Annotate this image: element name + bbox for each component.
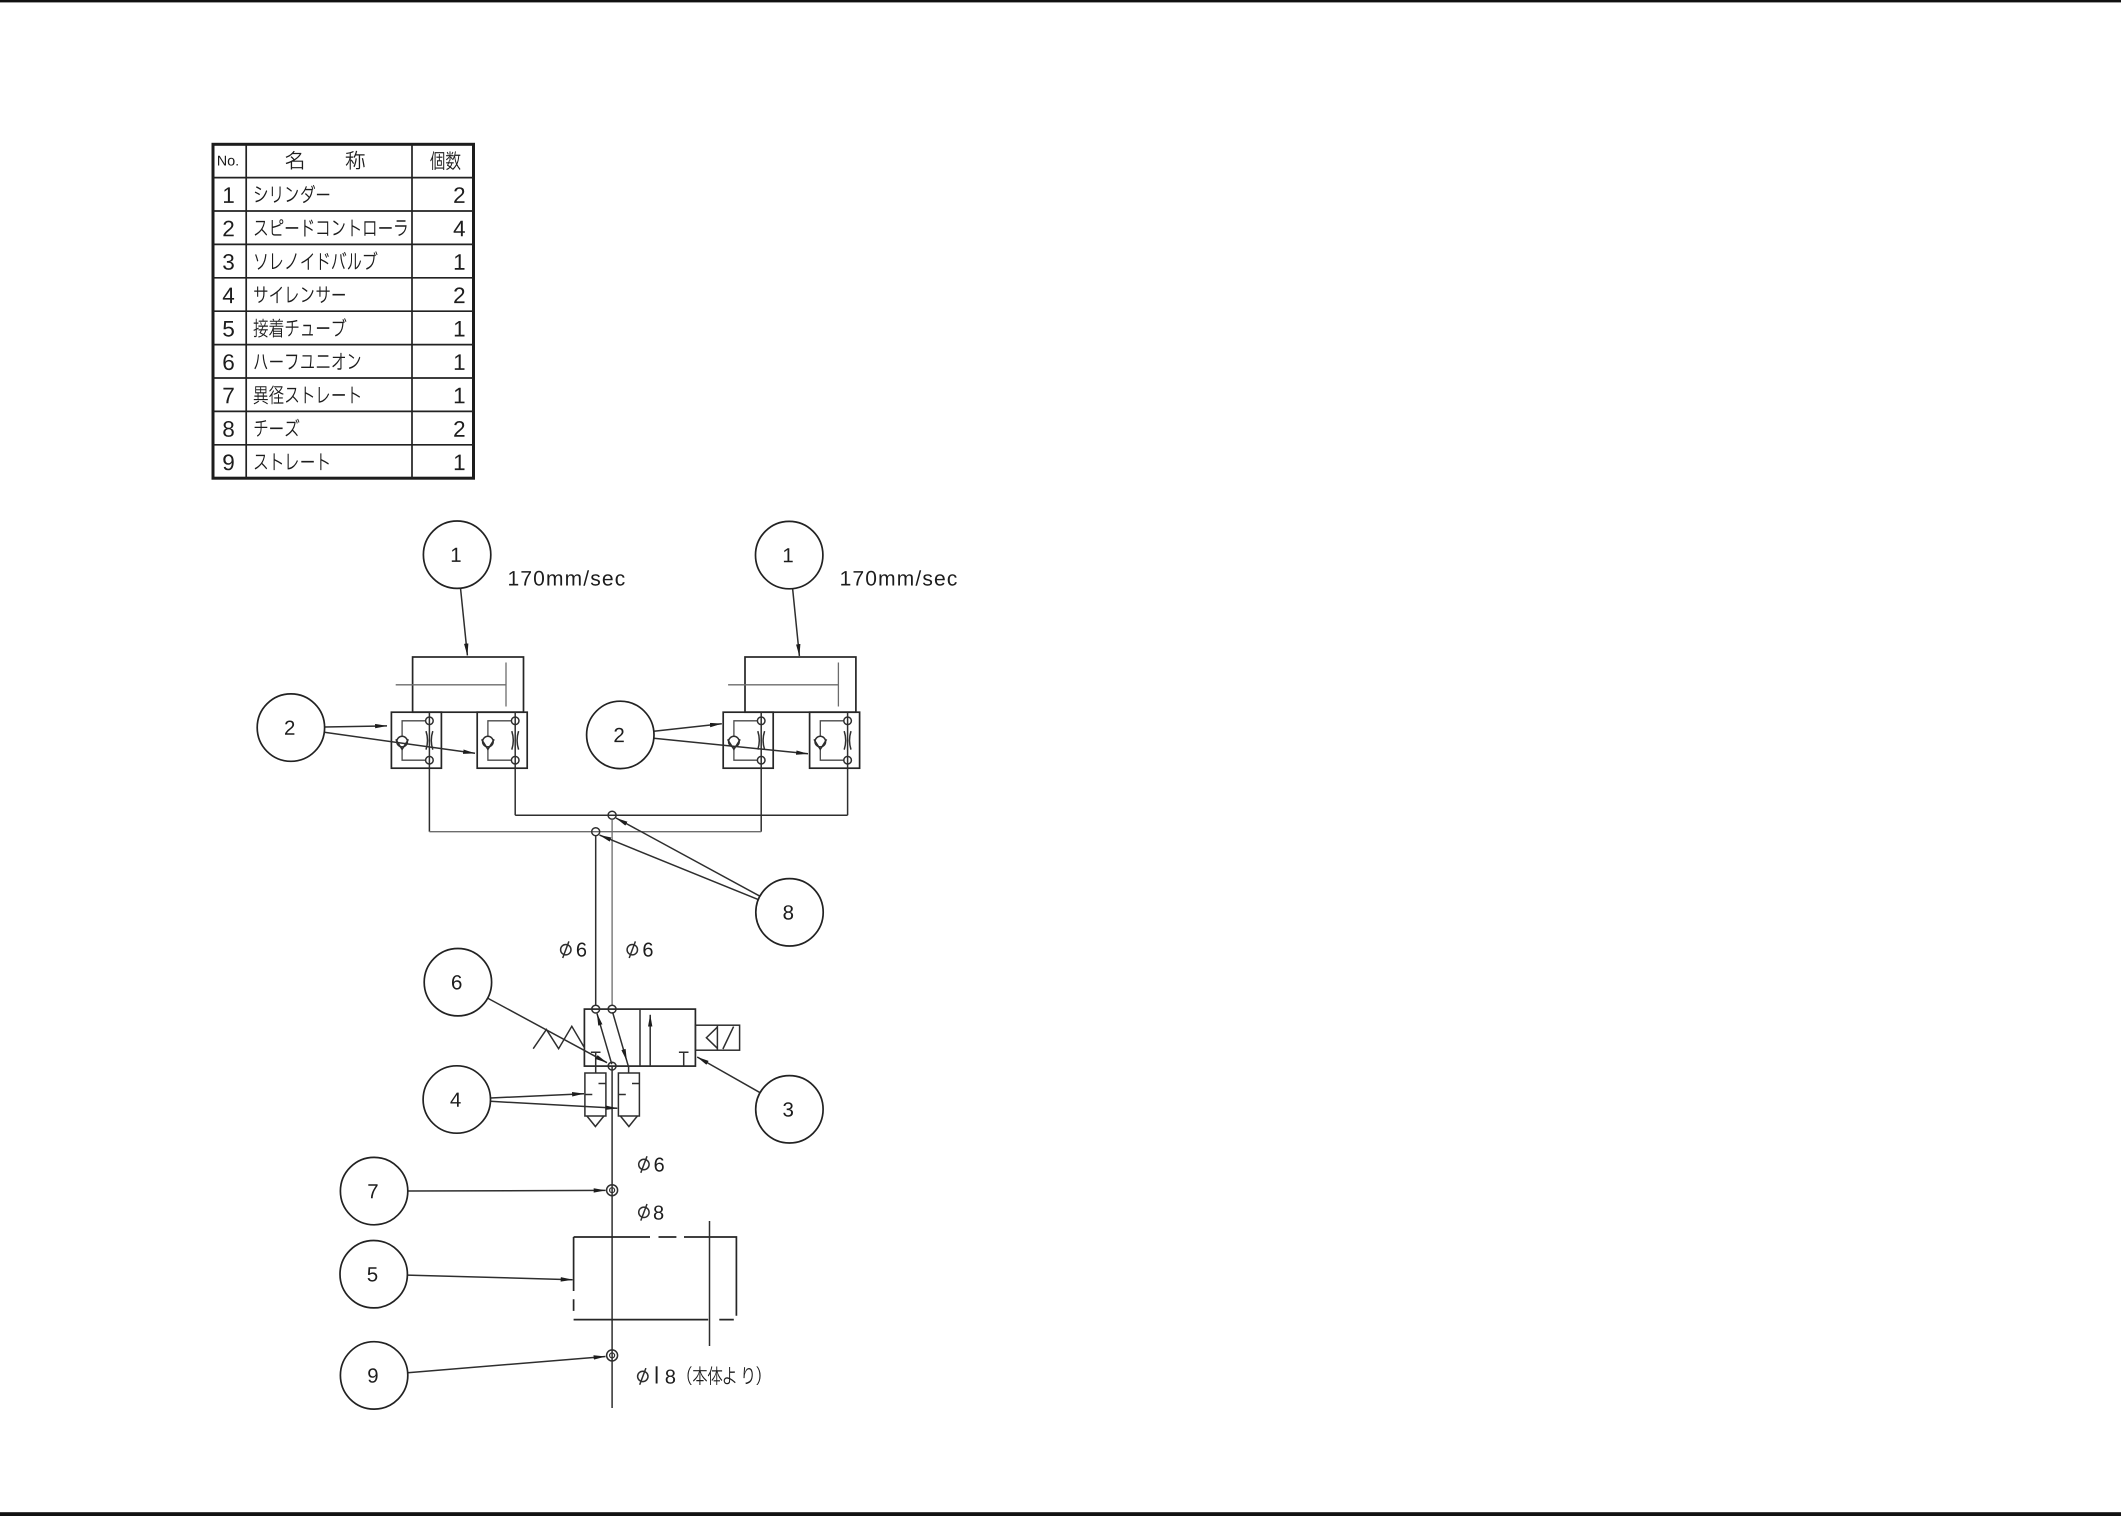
valve left chamber exhaust T	[591, 1052, 601, 1066]
wire: phi6 tube left, lower tee to valve	[595, 836, 597, 1006]
bonded tube 5: end mark line	[709, 1221, 711, 1346]
balloon 2 speed controllers (left pair)	[257, 694, 475, 761]
table row 2: スピードコントローラ x4	[223, 221, 233, 237]
top page border line	[0, 0, 2121, 2]
label phi6 (below valve)	[639, 1159, 649, 1169]
valve top port B (to cylinders, right)	[608, 1005, 616, 1013]
bottom page border line	[0, 1512, 2121, 1516]
bonded tube 5: outline (partly dashed)	[574, 1237, 737, 1320]
valve flow path (closed position) port B blocked	[613, 1012, 629, 1066]
balloon 6 half union	[424, 949, 607, 1063]
label phi6 (right tube)	[627, 945, 637, 955]
silencer 4 (left)	[585, 1073, 606, 1127]
speed controller 2 (cyl-1 left, rod side)	[391, 712, 441, 768]
table header: No.	[218, 156, 238, 166]
label 170mm/sec (right)	[841, 570, 957, 585]
wire: supply line down from valve	[611, 1066, 613, 1408]
cylinder 1 (left): piston	[505, 663, 507, 707]
tee node 8 (lower)	[592, 828, 600, 836]
label phi6 (left tube)	[561, 945, 571, 955]
cylinder 1 (left): body	[413, 657, 524, 712]
wire: left SC-A down to lower bus	[428, 768, 430, 832]
wire: lower bus	[429, 831, 761, 833]
table row 9: ストレート x1	[223, 454, 233, 470]
table row 5: 接着チューブ x1	[223, 321, 234, 337]
parts table row dividers	[213, 177, 474, 179]
table row 4: サイレンサー x2	[223, 288, 234, 304]
valve return spring	[533, 1026, 584, 1048]
balloon 4 silencers	[423, 1066, 617, 1133]
cylinder 1 (right): body	[745, 657, 856, 712]
balloon 1 cylinder (left)	[423, 521, 490, 655]
wire: right SC-B down to upper bus	[847, 768, 849, 815]
valve right chamber flow arrow	[649, 1015, 651, 1066]
cylinder 1 (right): piston rod	[728, 684, 838, 686]
parts table column dividers	[245, 144, 247, 478]
valve right chamber exhaust T	[679, 1052, 689, 1066]
solenoid valve 3: body	[584, 1009, 695, 1066]
cylinder 1 (right): piston	[837, 663, 839, 707]
silencer 4 (right)	[618, 1073, 639, 1127]
valve chamber divider	[639, 1009, 641, 1066]
wire: upper bus	[515, 814, 847, 816]
parts table frame	[213, 144, 474, 478]
balloon 2 speed controllers (right pair)	[587, 701, 808, 768]
balloon 5 bonded tube	[340, 1241, 573, 1308]
wire: phi6 tube right, upper tee to valve	[611, 819, 613, 1005]
speed controller 2 (cyl-2 right, rod side)	[723, 712, 773, 768]
valve flow path (closed position) port A to exhaust	[597, 1014, 612, 1065]
label 170mm/sec (left)	[509, 570, 625, 585]
table row 6: ハーフユニオン x1	[223, 354, 233, 370]
cylinder 1 (left): piston rod	[396, 684, 506, 686]
balloon 1 cylinder (right)	[756, 521, 823, 656]
label phi18 (from main body)	[638, 1371, 648, 1381]
valve bottom node (half union 6 location)	[608, 1062, 616, 1070]
reducing straight fitting 7 (node)	[607, 1185, 618, 1196]
wire: valve exhaust to silencer left	[595, 1066, 597, 1073]
wire: right SC-A down to lower bus	[760, 768, 762, 832]
table row 8: チーズ x2	[223, 421, 234, 437]
balloon 9 straight	[340, 1342, 605, 1409]
straight fitting 9 (node)	[607, 1350, 618, 1361]
balloon 7 reducing straight	[340, 1157, 605, 1224]
table row 1: シリンダー x2	[224, 187, 234, 203]
solenoid actuator box	[695, 1025, 739, 1050]
speed controller 2 (cyl-2 right, cap side)	[810, 712, 860, 768]
table row 7: 異径ストレート x1	[223, 388, 233, 404]
speed controller 2 (cyl-1 left, cap side)	[477, 712, 527, 768]
valve top port A (to cylinders, left)	[592, 1005, 600, 1013]
table row 3: ソレノイドバルブ x1	[223, 254, 234, 270]
table header: 個数	[430, 151, 460, 170]
wire: left SC-B down to upper bus	[514, 768, 516, 815]
balloon 3 solenoid valve	[697, 1057, 823, 1143]
label phi8	[639, 1207, 649, 1217]
wire: valve port to silencer right	[628, 1066, 630, 1073]
balloon 8 tees	[600, 818, 824, 946]
table header: 名称	[286, 151, 365, 170]
tee node 8 (upper)	[608, 811, 616, 819]
